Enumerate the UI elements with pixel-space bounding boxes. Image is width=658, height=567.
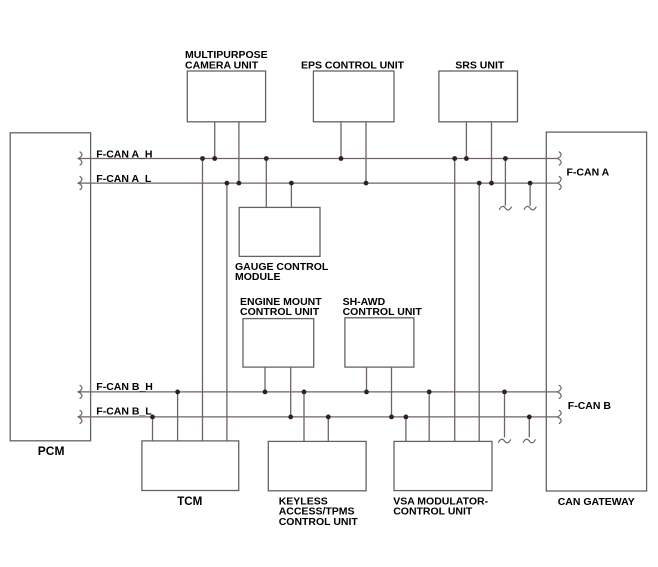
break symbol B_L right bbox=[557, 410, 561, 424]
wire A_L to TCM bbox=[226, 183, 228, 441]
ECU box KEYLESS ACCESS/TPMS CONTROL UNIT bbox=[268, 441, 366, 490]
ECU box SRS UNIT bbox=[439, 71, 518, 122]
break symbol A_H right bbox=[557, 152, 561, 166]
wire A_H to TCM bbox=[202, 159, 204, 441]
junction B_H / keyless bbox=[302, 390, 307, 395]
wire SH-AWD to B_L bbox=[391, 367, 393, 417]
wire camera unit to A_L bbox=[238, 122, 240, 183]
break tilde B_H stub bbox=[498, 439, 510, 443]
wire SH-AWD to B_H bbox=[366, 367, 368, 392]
ECU box ENGINE MOUNT CONTROL UNIT bbox=[243, 319, 314, 368]
svg-text:F-CAN A_H: F-CAN A_H bbox=[96, 148, 152, 160]
svg-text:EPS CONTROL UNIT: EPS CONTROL UNIT bbox=[301, 59, 405, 71]
wire bus F-CAN B_H bbox=[78, 391, 557, 393]
junction A_L / TCM riser bbox=[225, 181, 230, 186]
junction B_H / VSA bbox=[427, 390, 432, 395]
wire gauge module to A_H bbox=[265, 159, 267, 208]
svg-text:CAN GATEWAY: CAN GATEWAY bbox=[558, 496, 635, 508]
svg-text:TCM: TCM bbox=[177, 495, 202, 508]
junction A_L / terminator bbox=[528, 181, 533, 186]
wire keyless to B_H bbox=[303, 392, 305, 442]
junction A_H / SRS bbox=[464, 156, 469, 161]
junction B_L / TCM bbox=[150, 415, 155, 420]
ECU box MULTIPURPOSE CAMERA UNIT bbox=[187, 71, 265, 122]
junction B_L / SH-AWD bbox=[389, 415, 394, 420]
wire bus F-CAN B_L bbox=[78, 416, 557, 418]
break symbol B_L left bbox=[78, 410, 82, 424]
svg-text:CAMERA UNIT: CAMERA UNIT bbox=[185, 59, 259, 71]
svg-text:MODULE: MODULE bbox=[235, 271, 281, 283]
wire EPS to A_H bbox=[340, 122, 342, 159]
junction B_L / terminator bbox=[527, 415, 532, 420]
break tilde A_H stub bbox=[499, 206, 511, 210]
break symbol B_H left bbox=[78, 385, 82, 399]
wire camera unit to A_H bbox=[214, 122, 216, 159]
terminator stub on B_L bbox=[528, 417, 530, 438]
wire SRS to A_L bbox=[491, 122, 493, 183]
wire VSA to B_L bbox=[405, 417, 407, 442]
wire engine mount to B_H bbox=[264, 367, 266, 392]
wire VSA to B_H bbox=[428, 392, 430, 442]
junction A_L / gauge bbox=[289, 181, 294, 186]
junction B_H / engine mount bbox=[263, 390, 268, 395]
junction A_H / VSA riser bbox=[452, 156, 457, 161]
wire engine mount to B_L bbox=[290, 367, 292, 417]
wire SRS to A_H bbox=[465, 122, 467, 159]
svg-text:F-CAN A_L: F-CAN A_L bbox=[96, 173, 152, 185]
junction A_L / EPS bbox=[364, 181, 369, 186]
terminator stub on A_H bbox=[504, 159, 506, 206]
junction B_L / engine mount bbox=[288, 415, 293, 420]
break symbol A_L right bbox=[557, 176, 561, 190]
junction A_L / SRS bbox=[489, 181, 494, 186]
junction B_H / terminator bbox=[502, 390, 507, 395]
break tilde A_L stub bbox=[524, 206, 536, 210]
ECU box EPS CONTROL UNIT bbox=[313, 71, 394, 122]
junction B_L / VSA bbox=[404, 415, 409, 420]
junction A_H / terminator bbox=[503, 156, 508, 161]
junction A_H / TCM riser bbox=[200, 156, 205, 161]
ECU box GAUGE CONTROL MODULE bbox=[239, 207, 320, 256]
wire gauge module to A_L bbox=[290, 183, 292, 207]
ECU box TCM bbox=[142, 441, 239, 491]
junction A_L / VSA riser bbox=[477, 181, 482, 186]
wire bus F-CAN A_L bbox=[78, 182, 557, 184]
svg-text:CONTROL UNIT: CONTROL UNIT bbox=[240, 306, 320, 318]
junction B_H / TCM bbox=[175, 390, 180, 395]
svg-text:F-CAN B: F-CAN B bbox=[568, 400, 612, 412]
junction A_H / camera bbox=[212, 156, 217, 161]
break tilde B_L stub bbox=[523, 439, 535, 443]
junction A_L / camera bbox=[237, 181, 242, 186]
junction A_H / EPS bbox=[339, 156, 344, 161]
break symbol A_L left bbox=[78, 176, 82, 190]
svg-text:F-CAN B_H: F-CAN B_H bbox=[96, 381, 153, 393]
terminator stub on B_H bbox=[504, 392, 506, 438]
wire EPS to A_L bbox=[365, 122, 367, 183]
wire A_H to VSA modulator bbox=[454, 159, 456, 442]
junction A_H / gauge bbox=[264, 156, 269, 161]
terminator stub on A_L bbox=[529, 183, 531, 206]
svg-text:CONTROL UNIT: CONTROL UNIT bbox=[279, 516, 359, 528]
wire TCM to B_H bbox=[177, 392, 179, 441]
svg-text:CONTROL UNIT: CONTROL UNIT bbox=[393, 506, 473, 518]
svg-text:F-CAN A: F-CAN A bbox=[567, 166, 610, 178]
break symbol B_H right bbox=[557, 385, 561, 399]
ECU box CAN GATEWAY bbox=[546, 132, 646, 491]
svg-text:PCM: PCM bbox=[38, 444, 65, 458]
junction B_L / keyless bbox=[326, 415, 331, 420]
wire A_L to VSA modulator bbox=[478, 183, 480, 441]
ECU box SH-AWD CONTROL UNIT bbox=[345, 318, 414, 367]
svg-text:F-CAN B_L: F-CAN B_L bbox=[96, 406, 152, 418]
wire bus F-CAN A_H bbox=[78, 158, 557, 160]
wire TCM to B_L bbox=[152, 417, 154, 441]
ECU box VSA MODULATOR-CONTROL UNIT bbox=[394, 441, 492, 490]
ECU box PCM bbox=[10, 133, 90, 441]
junction B_H / SH-AWD bbox=[364, 390, 369, 395]
break symbol A_H left bbox=[78, 152, 82, 166]
wire keyless to B_L bbox=[327, 417, 329, 442]
svg-text:SRS UNIT: SRS UNIT bbox=[455, 59, 505, 71]
svg-text:CONTROL UNIT: CONTROL UNIT bbox=[343, 306, 423, 318]
